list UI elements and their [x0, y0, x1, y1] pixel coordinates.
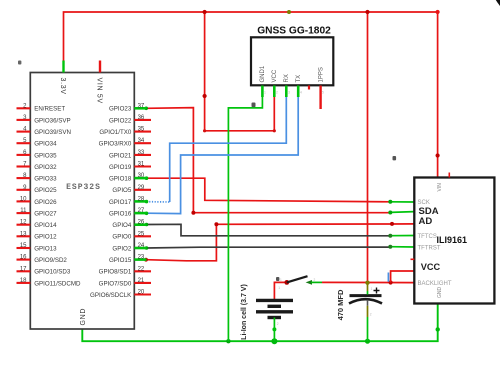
- ESP32 pin 4 GPIO39/SVN: [17, 127, 71, 136]
- bendpoint: pin37 leg end: [144, 107, 148, 111]
- svg-text:VIN 5V: VIN 5V: [96, 78, 103, 104]
- wire: GPIO17 to GNSS RX (blue): [147, 201, 170, 203]
- wire: GPIO18 to ILI9161 SCK: [147, 178, 391, 202]
- ESP32 pin 5 GPIO34: [17, 138, 58, 147]
- ESP32 pin 29 GPIO5: [112, 185, 151, 194]
- ESP32 pin 11 GPIO27: [17, 208, 58, 217]
- svg-text:GND: GND: [80, 308, 87, 326]
- ESP32 pin 12 GPIO14: [17, 220, 58, 229]
- wire: top rail branch down to capacitor / backlight net: [367, 12, 369, 283]
- svg-text:2: 2: [276, 91, 278, 95]
- svg-text:GPIO14: GPIO14: [34, 222, 57, 229]
- switch S1 pivot dot: [284, 280, 289, 285]
- ILI stray red tick top edge: [448, 173, 450, 178]
- ESP32 pin 35 GPIO1/TX0: [99, 127, 151, 136]
- svg-text:20: 20: [138, 290, 145, 296]
- GNSS tiny pin numbers: [264, 91, 324, 95]
- bendpoint: GNSS VCC wire: [203, 94, 207, 98]
- bendpoint: GPIO23 wire corner: [191, 211, 195, 215]
- junction: rail capacitor: [365, 339, 370, 344]
- svg-text:25: 25: [138, 231, 145, 237]
- cursor fragment top-right: [496, 0, 500, 6]
- wire: GPIO2 to ILI9161 TFTRST (black): [147, 246, 391, 249]
- ILI9161 module U3: [411, 173, 495, 304]
- svg-text:470 MFD: 470 MFD: [336, 289, 345, 320]
- wire: stray blue stub near backlight: [387, 273, 389, 282]
- svg-text:GPIO6/SDCLK: GPIO6/SDCLK: [90, 292, 132, 299]
- svg-text:GPIO9/SD2: GPIO9/SD2: [34, 257, 67, 264]
- ESP32 pin 37 GPIO23: [109, 103, 147, 112]
- svg-text:GPIO35: GPIO35: [34, 152, 57, 159]
- svg-text:13: 13: [20, 231, 27, 237]
- svg-text:GPIO22: GPIO22: [109, 117, 132, 124]
- GNSS pin VCC leg: [273, 86, 276, 98]
- wire: GNSS GND1 down-left to ground rail: [228, 86, 262, 342]
- svg-text:GPIO26: GPIO26: [34, 199, 57, 206]
- svg-text:1: 1: [264, 91, 266, 95]
- GNSS module U2: [251, 26, 333, 110]
- ESP32 pin 22 GPIO8/SD1: [99, 266, 151, 275]
- ESP32 pin 28 GPIO17: [109, 196, 147, 205]
- svg-text:18: 18: [20, 278, 27, 284]
- ESP32 pin 3 GPIO36/SVP: [17, 115, 71, 124]
- ESP32 pin 21 GPIO7/SD0: [99, 278, 151, 287]
- svg-text:11: 11: [20, 208, 27, 214]
- svg-text:29: 29: [138, 185, 145, 191]
- GNSS pin 1PPS leg (red, dangling): [319, 86, 321, 110]
- bendpoint: pin26 leg end: [145, 223, 149, 227]
- svg-text:EN/RESET: EN/RESET: [34, 106, 65, 113]
- svg-text:,: ,: [416, 223, 417, 227]
- svg-text:37: 37: [138, 103, 145, 109]
- svg-text:ESP32S: ESP32S: [66, 183, 101, 192]
- svg-text:2: 2: [277, 322, 279, 326]
- svg-text:28: 28: [138, 196, 145, 202]
- svg-text:GPIO21: GPIO21: [109, 152, 132, 159]
- svg-text:GPIO10/SD3: GPIO10/SD3: [34, 269, 71, 276]
- svg-text:GPIO27: GPIO27: [34, 211, 57, 218]
- ESP32 pin 26 GPIO4: [112, 220, 146, 229]
- ESP32 pin 6 GPIO35: [17, 150, 58, 159]
- ESP32 pin 2 EN/RESET: [17, 103, 66, 112]
- wire: GPIO23 to ILI9161 SDA: [147, 108, 391, 213]
- svg-text:GPIO2: GPIO2: [112, 245, 131, 252]
- svg-text:GPIO4: GPIO4: [112, 222, 131, 229]
- svg-text:RX: RX: [284, 74, 290, 82]
- svg-text:BACKLIGHT: BACKLIGHT: [418, 281, 452, 287]
- ESP32 pin 9 GPIO25: [17, 185, 58, 194]
- battery BT1: Li-Ion cell: [256, 300, 293, 317]
- bendpoint: pin28 leg end: [145, 200, 149, 204]
- svg-text:30: 30: [138, 173, 145, 179]
- switch S1 lever: [287, 276, 308, 282]
- capacitor C1 470 MFD: [349, 296, 382, 304]
- svg-text:34: 34: [138, 138, 145, 144]
- capacitor top leg: [367, 284, 369, 292]
- ESP32 pin 24 GPIO2: [112, 243, 146, 252]
- ESP32 pin 17 GPIO10/SD3: [17, 266, 71, 275]
- ESP32 pin 15 GPIO13: [17, 243, 58, 252]
- svg-text:12: 12: [20, 220, 27, 226]
- junction: top rail at x=204.6: [203, 10, 207, 14]
- ESP32 pin 13 GPIO12: [17, 231, 58, 240]
- wire: top rail branch to GNSS VCC: [205, 12, 275, 131]
- bendpoint: VIN wire: [436, 153, 440, 157]
- ESP32 pin 34 GPIO3/RX0: [99, 138, 151, 147]
- svg-text:GPIO23: GPIO23: [109, 106, 132, 113]
- ESP32 pin 10 GPIO26: [17, 196, 58, 205]
- wire: ground rail (ESP32 GND to ILI9161 GND): [82, 304, 437, 342]
- ESP32 pin 25 GPIO0: [112, 231, 151, 240]
- wire: 3.3V to top power rail to ILI9161 VIN: [64, 12, 438, 177]
- svg-text:33: 33: [138, 150, 145, 156]
- svg-text:GND1: GND1: [260, 65, 266, 82]
- svg-text:GPIO3/RX0: GPIO3/RX0: [99, 141, 132, 148]
- bendpoint: GPIO15 wire corner: [214, 222, 218, 226]
- svg-text:GPIO25: GPIO25: [34, 187, 57, 194]
- svg-text:GPIO7/SD0: GPIO7/SD0: [99, 280, 132, 287]
- battery bottom leg: [273, 318, 275, 342]
- svg-text:GPIO8/SD1: GPIO8/SD1: [99, 269, 132, 276]
- wire: GPIO16 to GNSS TX (blue): [147, 97, 299, 214]
- bendpoint: ILI GND wire: [436, 327, 440, 331]
- svg-text:GPIO33: GPIO33: [34, 176, 57, 183]
- svg-text:,: ,: [416, 211, 417, 215]
- bendpoint: pin24 leg end: [145, 246, 149, 250]
- svg-text:GPIO16: GPIO16: [109, 211, 132, 218]
- tiny pin-number hints: [277, 211, 417, 326]
- svg-text:2: 2: [314, 278, 316, 282]
- ESP32 VIN 5V leg (red, dangling): [99, 61, 101, 73]
- svg-text:5: 5: [322, 91, 324, 95]
- junction: top rail at x=367.5: [365, 10, 369, 14]
- svg-text:Li-Ion cell (3.7 V): Li-Ion cell (3.7 V): [241, 284, 248, 340]
- svg-text:GPIO32: GPIO32: [34, 164, 57, 171]
- wire: GPIO4 to ILI9161 TFTCS (black): [147, 224, 391, 236]
- bendpoint: pin23 leg end: [144, 258, 148, 262]
- svg-text:36: 36: [138, 115, 145, 121]
- bendpoint: battery leg: [272, 327, 276, 331]
- ESP32 pin 33 GPIO21: [109, 150, 151, 159]
- svg-text:15: 15: [20, 243, 27, 249]
- ILI stray red tick left edge: [411, 258, 415, 260]
- svg-text:1PPS: 1PPS: [318, 67, 324, 82]
- bendpoint: GNSS VCC corner dots: [203, 129, 206, 132]
- ESP32 pin 27 GPIO16: [109, 208, 147, 217]
- junction: rail x=228.4: [226, 339, 230, 343]
- svg-text:GPIO5: GPIO5: [112, 187, 131, 194]
- svg-text:23: 23: [138, 255, 145, 261]
- bendpoint: pin30 leg end: [145, 176, 149, 180]
- svg-text:GPIO36/SVP: GPIO36/SVP: [34, 117, 70, 124]
- svg-text:AD: AD: [419, 216, 433, 227]
- bendpoint: pin27 leg end: [145, 212, 149, 216]
- ESP32 pin 18 GPIO11/SDCMD: [17, 278, 82, 287]
- ESP32 3.3V leg: [62, 61, 64, 73]
- svg-text:TX: TX: [296, 75, 302, 83]
- svg-text:22: 22: [138, 266, 145, 272]
- capacitor plus sign: [374, 288, 380, 294]
- svg-text:31: 31: [138, 162, 145, 168]
- svg-text:GNSS GG-1802: GNSS GG-1802: [257, 26, 331, 37]
- svg-text:1: 1: [280, 278, 282, 282]
- svg-text:10: 10: [20, 196, 27, 202]
- svg-text:VCC: VCC: [272, 69, 278, 82]
- GNSS pin GND1 leg: [261, 86, 264, 98]
- GNSS pin TX leg: [297, 86, 300, 98]
- svg-text:GPIO34: GPIO34: [34, 141, 57, 148]
- wire: GPIO15 to ILI9161 AD: [147, 224, 415, 261]
- svg-text:TFTCS: TFTCS: [418, 234, 437, 240]
- bendpoint: top rail right corner: [436, 10, 440, 14]
- svg-text:GPIO18: GPIO18: [109, 176, 132, 183]
- svg-text:24: 24: [138, 243, 145, 249]
- svg-text:3: 3: [288, 91, 290, 95]
- GNSS pin labels: [260, 65, 324, 82]
- GNSS pin RX leg: [285, 86, 288, 98]
- svg-text:GND: GND: [437, 287, 443, 299]
- bendpoint: backlight/VCC branch: [389, 280, 393, 284]
- svg-text:35: 35: [138, 127, 145, 133]
- svg-text:21: 21: [138, 278, 145, 284]
- ESP32 pin 7 GPIO32: [17, 162, 58, 171]
- svg-text:4: 4: [300, 91, 302, 95]
- svg-text:SCK: SCK: [418, 200, 430, 206]
- svg-text:GPIO0: GPIO0: [112, 234, 131, 241]
- junction: rail battery: [271, 338, 277, 344]
- svg-text:1: 1: [371, 287, 373, 291]
- svg-text:GPIO15: GPIO15: [109, 257, 132, 264]
- svg-text:1: 1: [278, 286, 280, 290]
- junction: capacitor top / backlight (olive): [365, 281, 369, 285]
- GNSS stub pin: [308, 86, 310, 90]
- svg-text:ILI9161: ILI9161: [437, 235, 468, 245]
- svg-text:17: 17: [20, 266, 27, 272]
- wire: battery to switch pivot: [274, 282, 286, 299]
- svg-text:3.3V: 3.3V: [59, 78, 66, 95]
- wire: branch up to ILI9161 VCC: [391, 271, 415, 282]
- svg-text:GPIO19: GPIO19: [109, 164, 132, 171]
- svg-text:16: 16: [20, 255, 27, 261]
- ESP32 pin 16 GPIO9/SD2: [17, 255, 68, 264]
- svg-text:26: 26: [138, 220, 145, 226]
- capacitor bottom leg: [367, 306, 369, 317]
- svg-text:GPIO11/SDCMD: GPIO11/SDCMD: [34, 280, 81, 287]
- tiny artifact blobs: [18, 61, 21, 65]
- svg-text:GPIO1/TX0: GPIO1/TX0: [99, 129, 132, 136]
- svg-text:27: 27: [138, 208, 145, 214]
- ESP32 pin 20 GPIO6/SDCLK: [90, 290, 151, 299]
- svg-text:VCC: VCC: [421, 262, 441, 272]
- junction: top rail olive dot: [287, 10, 291, 14]
- wire: switch to ILI9161 BACKLIGHT: [322, 281, 414, 283]
- capacitor stem: [367, 300, 369, 306]
- ESP32 pin 36 GPIO22: [109, 115, 151, 124]
- svg-text:2: 2: [370, 313, 372, 317]
- svg-text:GPIO17: GPIO17: [109, 199, 132, 206]
- svg-text:GPIO13: GPIO13: [34, 245, 57, 252]
- svg-text:VIN: VIN: [437, 183, 443, 192]
- ESP32 pin 8 GPIO33: [17, 173, 58, 182]
- svg-text:TFTRST: TFTRST: [418, 246, 441, 252]
- ESP32 module U1: [30, 61, 134, 330]
- ESP32 pin 31 GPIO19: [109, 162, 151, 171]
- switch S1 contact arrow: [306, 280, 312, 285]
- svg-text:GPIO12: GPIO12: [34, 234, 57, 241]
- svg-text:GPIO39/SVN: GPIO39/SVN: [34, 129, 71, 136]
- ESP32 pin 30 GPIO18: [109, 173, 147, 182]
- ESP32 pin 23 GPIO15: [109, 255, 147, 264]
